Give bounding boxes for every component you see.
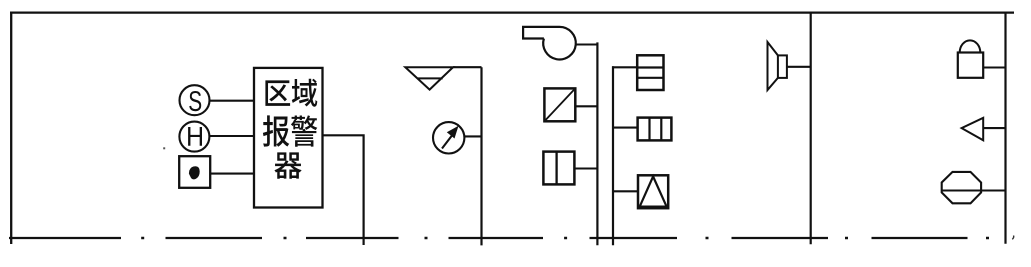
zone alarm label 区域报警器 <box>263 79 317 179</box>
whistle sounder <box>523 27 576 60</box>
wire speaker to divider <box>787 66 811 68</box>
smoke detector S <box>180 85 210 115</box>
manual call point (square with dot) <box>179 156 210 188</box>
wire trunk2 to three-row box <box>612 66 637 68</box>
diagonal box (damper) <box>544 88 575 121</box>
trunk1 wire (x=597.4) <box>596 42 598 245</box>
wire through gong to right border <box>942 189 1006 191</box>
three-col box <box>638 118 672 141</box>
heat detector H <box>179 122 209 152</box>
gauge with needle <box>433 122 464 153</box>
left-pointing triangle device <box>962 118 984 141</box>
two-cell box <box>543 152 574 185</box>
bottom dash-dot boundary line <box>9 237 968 239</box>
wire bell to right border <box>983 66 1005 68</box>
wire H to zone box <box>209 135 255 137</box>
zone alarm box U1 <box>254 68 323 208</box>
wire zone box to riser <box>323 134 364 245</box>
comma mark <box>1012 236 1013 240</box>
wire trunk2 to three-col box <box>613 127 638 129</box>
stray dot <box>163 147 165 149</box>
section divider wire <box>810 12 812 245</box>
ceiling detector (triangle with chord) <box>405 67 453 89</box>
wire two-cell box to trunk1 <box>574 167 597 169</box>
frame left border <box>10 12 12 245</box>
loudspeaker <box>768 42 787 90</box>
three-row box <box>637 55 663 90</box>
trunk2 wire (x=613) <box>612 66 614 245</box>
wire gauge to riser <box>464 135 481 137</box>
triangle-in-box <box>638 175 668 208</box>
bell (dome) indicator <box>958 40 983 77</box>
wire whistle to trunk1 <box>576 43 598 45</box>
wire triangle to right border <box>983 127 1005 129</box>
wire diagonal box to trunk1 <box>575 105 597 107</box>
round gong device <box>942 172 981 203</box>
wire S to zone box <box>210 100 256 102</box>
frame right border <box>1004 12 1006 244</box>
wire call point to zone box <box>210 173 255 175</box>
riser wire (x=481.5) <box>480 67 482 245</box>
wire trunk2 to triangle box <box>613 190 638 192</box>
frame top border <box>10 12 1014 14</box>
wire triangle to riser <box>453 66 482 68</box>
